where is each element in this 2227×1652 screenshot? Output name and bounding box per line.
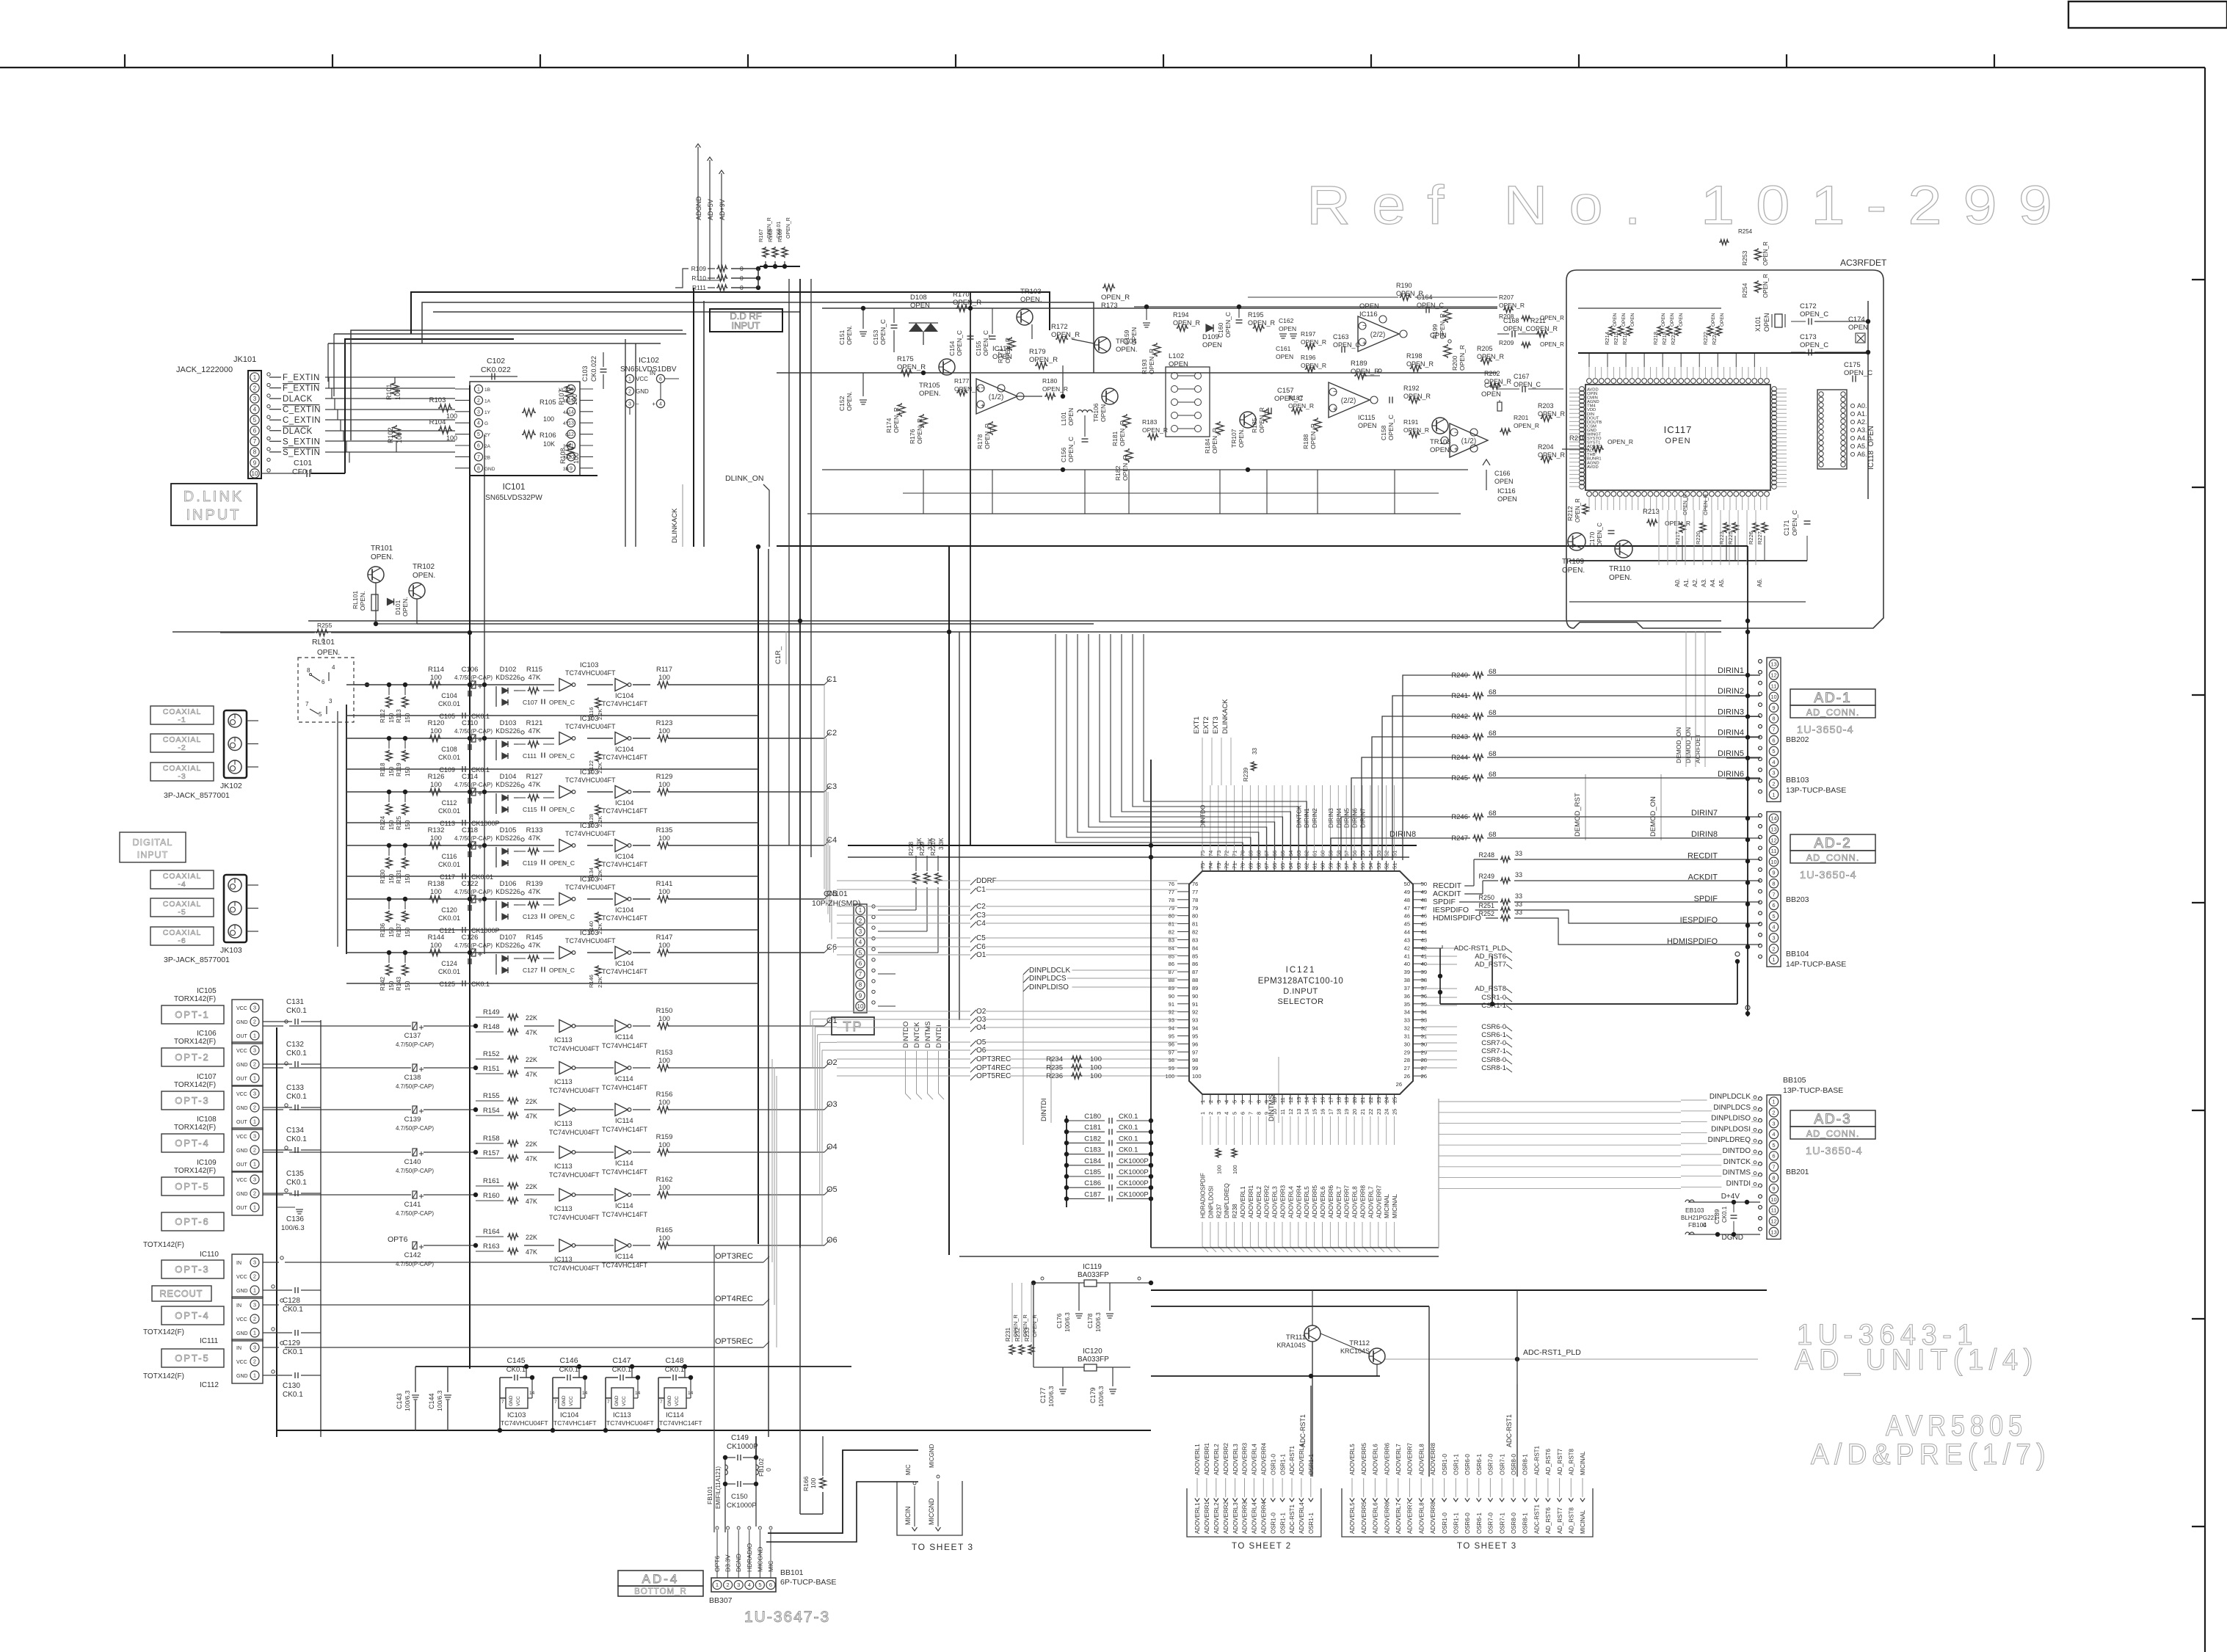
svg-text:23: 23 [1376, 1109, 1382, 1115]
svg-text:11: 11 [1279, 1109, 1286, 1115]
svg-text:OPEN_R: OPEN_R [1142, 426, 1168, 434]
svg-text:28: 28 [1404, 1057, 1410, 1063]
svg-text:36: 36 [1404, 993, 1410, 1000]
svg-text:OSR7-1: OSR7-1 [1499, 1454, 1505, 1475]
svg-text:67: 67 [1263, 863, 1270, 869]
svg-text:61: 61 [1312, 851, 1318, 856]
svg-text:ADOVERR6: ADOVERR6 [1328, 1185, 1334, 1218]
svg-text:47K: 47K [526, 1071, 537, 1078]
svg-text:C119: C119 [523, 859, 537, 867]
svg-text:87: 87 [1192, 969, 1198, 975]
svg-text:21: 21 [1359, 1097, 1366, 1103]
svg-text:47: 47 [1421, 905, 1427, 911]
svg-text:OPEN: OPEN [1621, 313, 1627, 327]
svg-text:C180: C180 [1084, 1113, 1101, 1121]
svg-text:24: 24 [1384, 1109, 1390, 1115]
svg-text:75: 75 [1199, 863, 1206, 869]
svg-text:OPEN: OPEN [1630, 313, 1635, 327]
svg-text:BB201: BB201 [1786, 1168, 1809, 1176]
svg-text:GND: GND [236, 1374, 248, 1379]
svg-text:8: 8 [1255, 1100, 1262, 1103]
svg-text:VCC: VCC [236, 1135, 247, 1140]
svg-text:100: 100 [430, 674, 442, 682]
svg-text:OPEN.: OPEN. [1100, 403, 1107, 422]
svg-text:DIRIN4: DIRIN4 [1718, 729, 1744, 738]
svg-text:IC113: IC113 [554, 1078, 573, 1086]
svg-text:15: 15 [1312, 1109, 1318, 1115]
svg-text:100/6.3: 100/6.3 [281, 1224, 305, 1232]
svg-text:5: 5 [1772, 1142, 1775, 1149]
svg-text:BA033FP: BA033FP [1078, 1356, 1109, 1364]
svg-text:77: 77 [1192, 889, 1198, 895]
svg-text:14P-TUCP-BASE: 14P-TUCP-BASE [1786, 960, 1846, 969]
svg-text:ADOVERL4: ADOVERL4 [1251, 1444, 1258, 1475]
svg-text:92: 92 [1192, 1009, 1198, 1016]
svg-text:ADC-RST1: ADC-RST1 [1533, 1504, 1540, 1534]
svg-text:R106: R106 [540, 432, 556, 440]
svg-text:R182: R182 [1114, 465, 1122, 481]
svg-text:2: 2 [253, 1061, 256, 1068]
svg-text:OPEN_C: OPEN_C [1596, 523, 1603, 547]
svg-text:AD_RST8: AD_RST8 [1569, 1448, 1575, 1475]
svg-text:R190: R190 [1396, 282, 1412, 289]
svg-text:GND: GND [562, 1395, 567, 1406]
svg-text:AD_RST6: AD_RST6 [1545, 1448, 1552, 1475]
svg-text:81: 81 [1169, 921, 1174, 928]
svg-text:AD-1: AD-1 [1814, 691, 1851, 706]
svg-text:TC74VHCU04FT: TC74VHCU04FT [501, 1419, 548, 1427]
svg-text:90: 90 [1169, 993, 1174, 1000]
svg-text:ADOVERR1: ADOVERR1 [1204, 1501, 1210, 1534]
svg-text:8: 8 [1255, 1112, 1262, 1115]
svg-text:R135: R135 [656, 826, 673, 834]
svg-text:2: 2 [1207, 1112, 1214, 1115]
svg-text:42: 42 [1404, 945, 1410, 951]
svg-text:IC109: IC109 [197, 1159, 217, 1167]
svg-text:ADOVERL2: ADOVERL2 [1213, 1444, 1220, 1475]
svg-text:TC74VHCU04FT: TC74VHCU04FT [549, 1087, 600, 1094]
svg-text:10: 10 [1271, 1097, 1278, 1103]
svg-text:OPEN: OPEN [1665, 437, 1690, 445]
svg-text:100: 100 [571, 394, 578, 405]
svg-text:ADOVERL1: ADOVERL1 [1194, 1502, 1201, 1534]
svg-text:74: 74 [1207, 863, 1214, 869]
svg-text:R250: R250 [1478, 894, 1494, 901]
svg-text:ADOVERL6: ADOVERL6 [1373, 1502, 1379, 1534]
svg-text:78: 78 [1192, 897, 1198, 903]
svg-text:C1R_: C1R_ [774, 646, 782, 664]
svg-text:R219: R219 [1661, 332, 1668, 345]
svg-text:OPEN_R: OPEN_R [893, 407, 900, 433]
svg-text:ADOVERL5: ADOVERL5 [1349, 1444, 1356, 1475]
svg-text:7: 7 [1772, 891, 1775, 898]
svg-text:60: 60 [1320, 851, 1326, 856]
svg-text:R231: R231 [1005, 1327, 1011, 1342]
svg-text:OPEN: OPEN [1276, 353, 1293, 360]
svg-text:TOTX142(F): TOTX142(F) [143, 1241, 184, 1249]
svg-text:TO SHEET 2: TO SHEET 2 [1232, 1542, 1292, 1551]
svg-text:OPT4REC: OPT4REC [976, 1064, 1011, 1072]
svg-text:R203: R203 [1538, 402, 1554, 410]
svg-text:DINPLDREQ: DINPLDREQ [1708, 1136, 1751, 1144]
svg-text:1: 1 [1772, 1099, 1775, 1105]
svg-text:IC114: IC114 [615, 1075, 633, 1083]
svg-text:R252: R252 [1478, 910, 1494, 917]
svg-text:R222: R222 [1702, 332, 1709, 345]
svg-text:A3.: A3. [1857, 426, 1867, 434]
svg-text:AD_UNIT(1/4): AD_UNIT(1/4) [1795, 1344, 2038, 1376]
svg-text:0: 0 [765, 1468, 772, 1471]
svg-text:1: 1 [253, 1075, 256, 1082]
svg-text:100: 100 [658, 1015, 670, 1023]
svg-text:ADOVERL6: ADOVERL6 [1320, 1186, 1326, 1218]
svg-text:TC74VHCU04FT: TC74VHCU04FT [549, 1265, 600, 1272]
svg-text:TC74VHCU04FT: TC74VHCU04FT [549, 1129, 600, 1136]
svg-text:OPT-2: OPT-2 [175, 1052, 210, 1063]
svg-text:R213: R213 [1643, 508, 1660, 516]
svg-text:9: 9 [570, 466, 573, 471]
svg-text:R229: R229 [919, 841, 926, 856]
svg-text:34: 34 [1421, 1009, 1427, 1016]
svg-text:AD_RST6: AD_RST6 [1545, 1507, 1552, 1534]
svg-text:1: 1 [477, 387, 480, 393]
svg-text:HDMISPDIFO: HDMISPDIFO [1433, 914, 1481, 923]
svg-text:A3.: A3. [1701, 578, 1707, 587]
svg-text:OPEN_C: OPEN_C [956, 330, 963, 356]
svg-text:Ref No. 101-299: Ref No. 101-299 [1307, 175, 2074, 236]
svg-text:TC74VHCU04FT: TC74VHCU04FT [565, 830, 616, 837]
svg-text:TC74VHC14FT: TC74VHC14FT [602, 861, 648, 868]
svg-text:2: 2 [253, 1358, 256, 1365]
svg-text:47K: 47K [526, 1248, 537, 1256]
svg-text:D.INPUT: D.INPUT [1283, 987, 1318, 996]
svg-text:O2: O2 [976, 1008, 987, 1016]
svg-text:2: 2 [1207, 1100, 1214, 1103]
svg-text:54: 54 [1367, 863, 1374, 869]
svg-text:CSR8-1: CSR8-1 [1481, 1064, 1506, 1072]
svg-text:OPEN: OPEN [1359, 302, 1379, 310]
svg-text:ADC-RST1: ADC-RST1 [1299, 1414, 1307, 1447]
svg-text:IC117: IC117 [1664, 424, 1693, 435]
svg-text:AD-4: AD-4 [642, 1572, 680, 1586]
svg-text:47K: 47K [528, 888, 542, 896]
svg-text:+: + [652, 401, 655, 407]
svg-text:OSR1-0: OSR1-0 [1270, 1454, 1276, 1475]
svg-text:GND: GND [636, 388, 649, 395]
svg-text:3.3K: 3.3K [938, 837, 945, 850]
svg-text:IC104: IC104 [615, 853, 633, 861]
svg-text:VCC: VCC [516, 1396, 521, 1406]
svg-text:C155: C155 [975, 341, 982, 356]
svg-text:R238: R238 [1232, 1204, 1238, 1218]
svg-text:R181: R181 [1111, 431, 1119, 446]
svg-text:DINPLDOSI: DINPLDOSI [1711, 1125, 1751, 1133]
svg-text:IC102: IC102 [639, 356, 659, 365]
svg-text:ADOVERL4: ADOVERL4 [1251, 1502, 1258, 1534]
svg-text:7: 7 [1247, 1112, 1254, 1115]
svg-text:(1/2): (1/2) [1461, 437, 1477, 445]
svg-text:A4.: A4. [1857, 434, 1867, 442]
svg-text:BB203: BB203 [1786, 895, 1809, 904]
svg-text:IC113: IC113 [554, 1205, 573, 1213]
svg-text:90: 90 [1192, 993, 1198, 1000]
svg-text:9: 9 [1772, 705, 1775, 711]
svg-text:ADOVERL3: ADOVERL3 [1232, 1502, 1239, 1534]
svg-text:INPUT: INPUT [732, 320, 760, 331]
svg-text:36: 36 [1421, 993, 1427, 1000]
svg-text:O3: O3 [976, 1016, 987, 1024]
svg-text:R193: R193 [1141, 359, 1148, 374]
svg-text:OPEN_R: OPEN_R [1309, 423, 1317, 449]
svg-text:CK0.1: CK0.1 [1119, 1146, 1138, 1154]
svg-text:IC103: IC103 [580, 661, 598, 669]
svg-text:DIRIN7: DIRIN7 [1360, 808, 1367, 828]
svg-text:R214: R214 [1604, 332, 1610, 345]
svg-text:4A: 4A [563, 410, 570, 415]
svg-text:C2: C2 [827, 729, 837, 738]
svg-text:ADOVERL5: ADOVERL5 [1304, 1186, 1310, 1218]
svg-text:100: 100 [430, 834, 442, 843]
svg-text:A2.: A2. [1857, 418, 1867, 426]
svg-text:OPEN.: OPEN. [1609, 574, 1632, 582]
svg-text:R105: R105 [540, 399, 556, 407]
svg-text:99: 99 [1169, 1065, 1174, 1071]
svg-text:OSR1-1: OSR1-1 [1453, 1454, 1460, 1475]
svg-text:4.7/50(P-CAP): 4.7/50(P-CAP) [396, 1041, 434, 1048]
svg-text:R221: R221 [1670, 332, 1676, 345]
svg-text:R255: R255 [317, 622, 333, 629]
svg-text:47K: 47K [526, 1198, 537, 1205]
svg-text:65: 65 [1279, 863, 1286, 869]
svg-text:R155: R155 [483, 1092, 500, 1100]
svg-text:OUT: OUT [236, 1034, 248, 1039]
svg-text:A0.: A0. [1857, 402, 1867, 410]
svg-text:2: 2 [253, 1105, 256, 1111]
svg-text:D101: D101 [394, 600, 402, 615]
svg-text:OPEN_R: OPEN_R [1540, 315, 1564, 321]
svg-text:MICINAL: MICINAL [1580, 1451, 1586, 1475]
svg-text:DINTDI: DINTDI [1040, 1098, 1048, 1121]
svg-text:BB105: BB105 [1783, 1076, 1806, 1085]
svg-text:ADOVERR5: ADOVERR5 [1361, 1442, 1367, 1475]
svg-text:100: 100 [658, 1099, 670, 1107]
svg-text:88: 88 [1169, 977, 1174, 983]
svg-text:DEMOD_RST: DEMOD_RST [1574, 793, 1582, 837]
svg-text:49: 49 [1404, 889, 1410, 895]
svg-text:R115: R115 [526, 666, 542, 674]
svg-text:ADOVERL7: ADOVERL7 [1367, 1186, 1374, 1218]
svg-text:ADOVERR6: ADOVERR6 [1384, 1442, 1390, 1475]
svg-text:8: 8 [253, 449, 257, 456]
svg-text:71: 71 [1232, 851, 1238, 856]
svg-text:IC118 OPEN: IC118 OPEN [1867, 426, 1875, 470]
svg-text:OPEN: OPEN [1067, 408, 1075, 426]
svg-text:C179: C179 [1089, 1387, 1097, 1403]
svg-text:86: 86 [1192, 961, 1198, 967]
svg-text:CK0.1: CK0.1 [286, 1049, 307, 1058]
svg-text:R244: R244 [1451, 754, 1468, 762]
svg-text:D104: D104 [500, 773, 517, 781]
svg-text:OPT6: OPT6 [388, 1235, 408, 1244]
svg-text:94: 94 [1192, 1025, 1198, 1032]
svg-text:35: 35 [1404, 1001, 1410, 1008]
svg-text:C111: C111 [523, 752, 537, 760]
svg-text:IC103: IC103 [580, 715, 598, 723]
svg-text:3: 3 [1772, 1120, 1775, 1127]
svg-text:95: 95 [1192, 1033, 1198, 1039]
svg-text:100: 100 [1232, 1165, 1238, 1174]
svg-text:31: 31 [1404, 1033, 1410, 1039]
svg-text:CK0.01: CK0.01 [438, 807, 460, 815]
svg-text:2: 2 [628, 390, 631, 395]
svg-text:C116: C116 [442, 853, 457, 860]
svg-text:OSR8-1: OSR8-1 [1522, 1513, 1529, 1534]
svg-text:ADOVERL7: ADOVERL7 [1395, 1502, 1402, 1534]
svg-text:ADOVERR3: ADOVERR3 [1280, 1185, 1287, 1218]
svg-text:73: 73 [1216, 863, 1222, 869]
svg-text:R236: R236 [1046, 1072, 1063, 1080]
svg-text:OPT4REC: OPT4REC [715, 1295, 753, 1303]
svg-text:OPEN_C: OPEN_C [549, 859, 575, 867]
svg-text:ADOVERR1: ADOVERR1 [1204, 1442, 1210, 1475]
svg-text:D106: D106 [500, 880, 517, 888]
svg-text:R176: R176 [909, 429, 916, 444]
svg-text:TC74VHC14FT: TC74VHC14FT [602, 1042, 648, 1049]
svg-text:CN101: CN101 [824, 889, 848, 898]
svg-text:29: 29 [1404, 1049, 1410, 1055]
svg-text:9: 9 [1263, 1112, 1270, 1115]
svg-text:OPEN_C: OPEN_C [1224, 312, 1232, 338]
svg-text:22: 22 [1367, 1097, 1374, 1103]
svg-text:30: 30 [1421, 1041, 1427, 1047]
svg-text:16: 16 [1320, 1097, 1326, 1103]
svg-text:R161: R161 [483, 1177, 500, 1185]
svg-text:CK0.1: CK0.1 [1119, 1113, 1138, 1121]
svg-text:R241: R241 [1451, 692, 1468, 700]
svg-text:C5: C5 [976, 934, 986, 942]
svg-text:ADOVERL4: ADOVERL4 [1298, 1444, 1305, 1475]
svg-text:TORX142(F): TORX142(F) [174, 1081, 216, 1089]
svg-text:55: 55 [1359, 851, 1366, 856]
svg-text:TORX142(F): TORX142(F) [174, 995, 216, 1003]
svg-text:1Y: 1Y [484, 410, 491, 415]
svg-text:150: 150 [404, 820, 411, 830]
svg-text:DINTDI: DINTDI [935, 1025, 943, 1048]
svg-text:AD_RST7: AD_RST7 [1475, 961, 1506, 969]
svg-text:33: 33 [1515, 909, 1522, 916]
svg-text:OPT-4: OPT-4 [175, 1310, 210, 1321]
svg-text:F_EXTIN: F_EXTIN [283, 374, 320, 382]
svg-text:ADOVERR5: ADOVERR5 [1361, 1501, 1367, 1534]
svg-text:100: 100 [446, 434, 457, 442]
svg-text:6: 6 [859, 961, 862, 967]
svg-text:15: 15 [1312, 1097, 1318, 1103]
svg-text:25: 25 [1392, 1097, 1398, 1103]
svg-text:D103: D103 [500, 719, 517, 727]
svg-text:R172: R172 [1051, 323, 1068, 331]
svg-text:OPEN_C: OPEN_C [879, 319, 887, 345]
svg-text:AVR5805: AVR5805 [1886, 1410, 2027, 1442]
svg-text:OUT: OUT [236, 1120, 248, 1125]
svg-text:-1: -1 [178, 716, 186, 724]
svg-text:32: 32 [1421, 1025, 1427, 1032]
svg-text:9: 9 [1772, 1185, 1775, 1192]
svg-text:24: 24 [1384, 1097, 1390, 1103]
svg-text:66: 66 [1271, 863, 1278, 869]
svg-text:TORX142(F): TORX142(F) [174, 1038, 216, 1046]
svg-text:38: 38 [1421, 977, 1427, 983]
svg-text:CSR7-1: CSR7-1 [1481, 1047, 1506, 1055]
svg-text:OSR8-1: OSR8-1 [1522, 1454, 1529, 1475]
svg-text:33: 33 [1421, 1017, 1427, 1024]
svg-text:DIRIN8: DIRIN8 [1389, 830, 1416, 839]
svg-text:SN65LVDS32PW: SN65LVDS32PW [485, 494, 542, 502]
svg-text:VCC: VCC [569, 1396, 574, 1406]
svg-text:150: 150 [388, 873, 395, 884]
svg-text:17: 17 [1327, 1097, 1334, 1103]
svg-text:47K: 47K [528, 727, 542, 735]
svg-text:CK0.1: CK0.1 [283, 1391, 303, 1399]
svg-text:AD_RST7: AD_RST7 [1557, 1507, 1563, 1534]
svg-text:C128: C128 [283, 1297, 300, 1305]
svg-text:O1: O1 [976, 951, 987, 959]
svg-text:46: 46 [1421, 913, 1427, 920]
svg-text:13P-TUCP-BASE: 13P-TUCP-BASE [1783, 1086, 1843, 1095]
svg-text:ADOVERL8: ADOVERL8 [1418, 1502, 1425, 1534]
svg-text:TOTX142(F): TOTX142(F) [143, 1372, 184, 1380]
svg-text:5: 5 [253, 417, 257, 423]
svg-text:R227: R227 [1756, 531, 1763, 545]
svg-text:OPEN_R: OPEN_R [1122, 455, 1129, 481]
svg-text:R162: R162 [656, 1176, 673, 1184]
svg-text:93: 93 [1192, 1017, 1198, 1024]
svg-text:3: 3 [477, 410, 480, 415]
svg-text:3: 3 [253, 1176, 256, 1183]
svg-text:R215: R215 [1613, 332, 1619, 345]
svg-text:VCC: VCC [236, 1092, 247, 1097]
svg-text:A1.: A1. [1857, 410, 1867, 418]
svg-text:VCC: VCC [236, 1360, 247, 1365]
svg-text:95: 95 [1169, 1033, 1174, 1039]
svg-text:39: 39 [1421, 969, 1427, 975]
svg-text:OPEN_R: OPEN_R [953, 299, 981, 307]
svg-text:100: 100 [394, 389, 402, 400]
svg-text:1: 1 [1772, 791, 1775, 798]
svg-text:CK0.01: CK0.01 [438, 968, 460, 975]
svg-text:10: 10 [857, 1003, 864, 1010]
svg-text:RL101: RL101 [352, 591, 359, 609]
svg-text:1: 1 [253, 1287, 256, 1294]
svg-text:IC108: IC108 [197, 1116, 217, 1124]
svg-text:3: 3 [253, 1091, 256, 1097]
svg-text:8: 8 [1772, 716, 1775, 722]
svg-text:OPEN.: OPEN. [846, 392, 853, 411]
svg-text:OPT-4: OPT-4 [175, 1138, 210, 1149]
svg-text:58: 58 [1335, 863, 1342, 869]
svg-text:C130: C130 [283, 1382, 300, 1390]
svg-text:OPEN_C: OPEN_C [549, 913, 575, 920]
svg-text:41: 41 [1404, 953, 1410, 959]
svg-text:CK1000P: CK1000P [727, 1443, 758, 1451]
svg-text:C141: C141 [404, 1201, 421, 1209]
svg-text:22K: 22K [526, 1056, 537, 1063]
svg-text:75: 75 [1199, 851, 1206, 856]
svg-text:100: 100 [430, 781, 442, 789]
svg-text:2B: 2B [484, 455, 490, 460]
svg-text:9: 9 [253, 459, 257, 466]
svg-text:MICGND: MICGND [929, 1444, 935, 1468]
svg-text:6: 6 [1772, 902, 1775, 909]
